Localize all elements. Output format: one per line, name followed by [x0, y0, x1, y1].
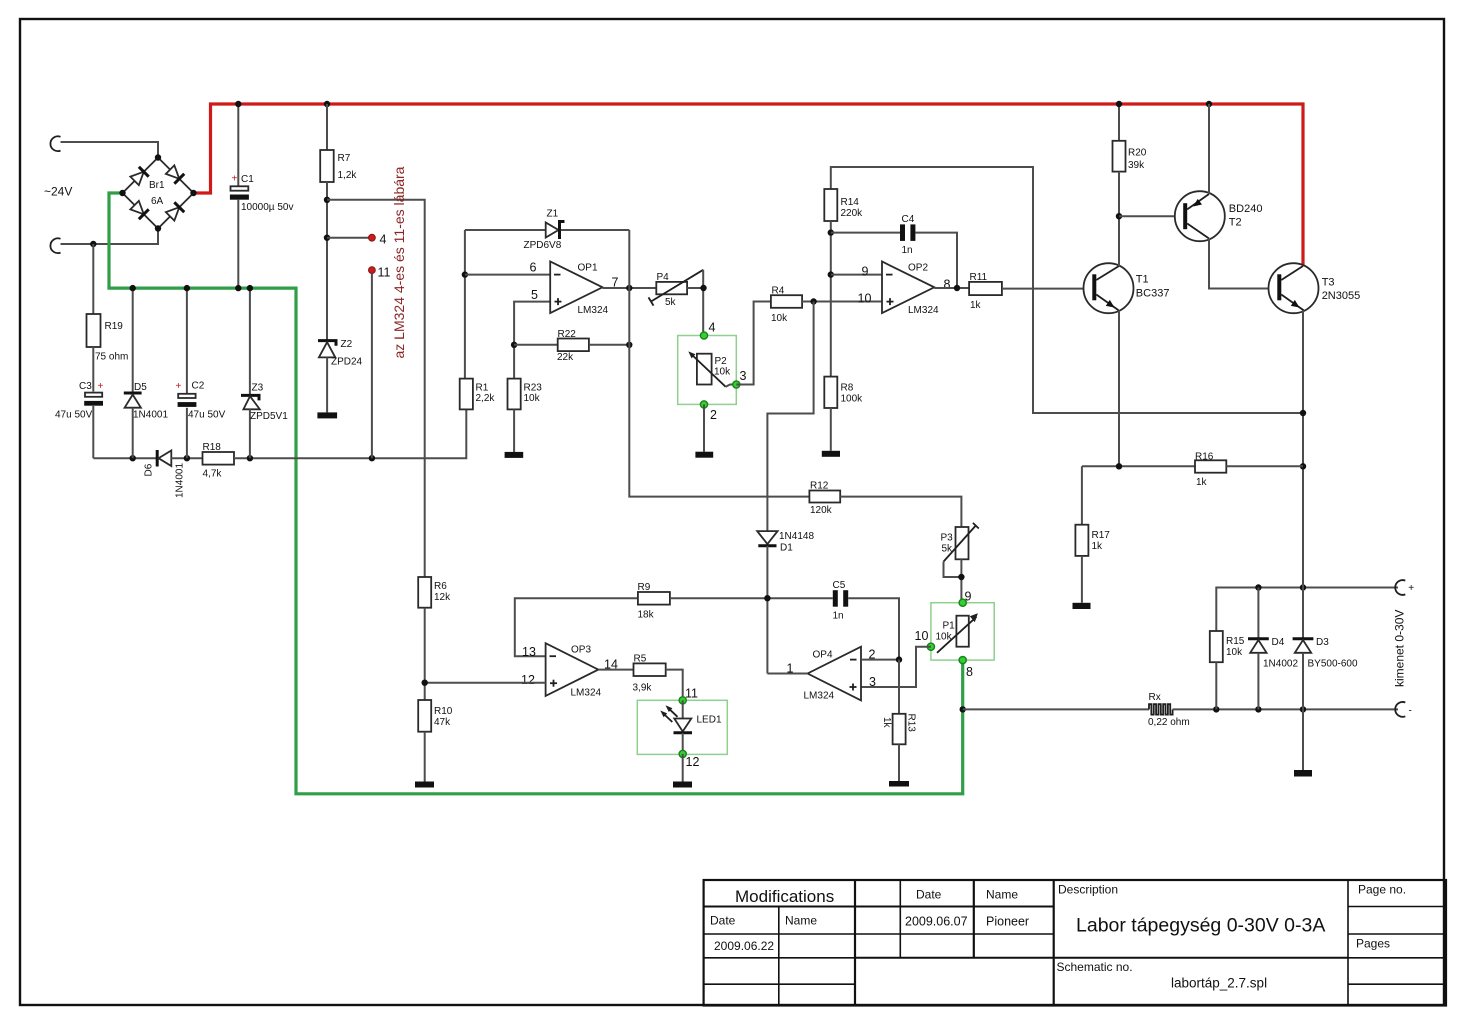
wire Z1 left vertical to R1 [464, 230, 466, 379]
svg-text:8: 8 [944, 278, 951, 292]
node C2 green [184, 285, 190, 291]
P2 pin 4 [700, 332, 707, 339]
node D3 minus [1300, 706, 1306, 712]
svg-text:+: + [1408, 583, 1414, 594]
svg-text:P3: P3 [941, 533, 954, 544]
svg-text:T3: T3 [1322, 277, 1335, 289]
resistor R13 [898, 660, 900, 714]
node C2 bus [184, 455, 190, 461]
svg-text:22k: 22k [557, 352, 574, 363]
resistor R4 [771, 295, 802, 308]
node D1 bottom R9 C5 [764, 595, 770, 601]
wire P2 pin3 to R4 [736, 302, 771, 385]
node R22 right [626, 342, 632, 348]
op-amp OP4 mirrored [808, 647, 861, 701]
resistor R7 [326, 104, 328, 150]
svg-text:D4: D4 [1272, 637, 1285, 648]
node pin2 C5 R13 [896, 656, 902, 662]
ground P2 [695, 452, 713, 458]
ground R10 [415, 782, 434, 788]
svg-text:Rx: Rx [1149, 692, 1161, 703]
svg-text:75 ohm: 75 ohm [95, 352, 128, 363]
LED1 emission arrows [668, 708, 678, 717]
svg-text:1k: 1k [881, 717, 892, 729]
node D4 plus [1255, 584, 1261, 590]
note az LM324 4-es es 11-es labara [391, 166, 407, 358]
svg-text:R12: R12 [810, 481, 829, 492]
title block horizontals [704, 906, 1054, 908]
resistor R6 [418, 577, 431, 608]
node P4 out [700, 285, 706, 291]
svg-text:1k: 1k [1196, 477, 1208, 488]
svg-text:3,9k: 3,9k [633, 683, 653, 694]
node 4 (red) [369, 234, 376, 241]
ground LED1 [673, 782, 692, 788]
ground R8 [822, 451, 840, 457]
svg-text:12k: 12k [434, 592, 451, 603]
svg-text:ZPD5V1: ZPD5V1 [250, 411, 288, 422]
pot P2 green frame [678, 336, 737, 405]
transistor T2 [1175, 191, 1225, 241]
capacitor C5 [833, 590, 838, 607]
wire R23 to ground [513, 409, 515, 452]
svg-text:2: 2 [710, 408, 717, 422]
P2 pin 3 [733, 381, 740, 388]
wire D6 to R18 [171, 457, 202, 459]
node T1 emitter R16 [1116, 463, 1122, 469]
svg-text:R14: R14 [841, 197, 860, 208]
svg-text:10k: 10k [714, 367, 731, 378]
node Z3 green [247, 285, 253, 291]
bridge diode bottom-right [165, 202, 184, 221]
svg-text:1,2k: 1,2k [338, 170, 358, 181]
potentiometer P4 [656, 282, 687, 294]
node P3 bottom [958, 574, 964, 580]
svg-text:R10: R10 [434, 706, 453, 717]
svg-text:11: 11 [378, 266, 391, 280]
svg-text:1N4148: 1N4148 [779, 531, 814, 542]
svg-text:10: 10 [915, 629, 929, 643]
svg-text:1N4002: 1N4002 [1263, 659, 1298, 670]
svg-text:10: 10 [858, 292, 872, 306]
diode D1 [757, 531, 777, 544]
node R7 bottom [324, 197, 330, 203]
svg-text:12: 12 [686, 755, 700, 769]
node bridge left [119, 190, 125, 196]
svg-text:R9: R9 [638, 582, 651, 593]
svg-text:labortáp_2.7.spl: labortáp_2.7.spl [1171, 976, 1267, 991]
svg-text:BD240: BD240 [1229, 203, 1263, 215]
svg-text:47u 50V: 47u 50V [188, 410, 226, 421]
svg-text:D6: D6 [144, 463, 155, 476]
svg-text:C1: C1 [241, 174, 254, 185]
AC input connector lower [50, 238, 60, 253]
svg-text:BC337: BC337 [1136, 288, 1170, 300]
bridge rectifier Br1 diamond [123, 158, 194, 229]
svg-text:P2: P2 [715, 356, 728, 367]
node D4 minus [1255, 706, 1261, 712]
node R7 red rail [324, 101, 330, 107]
resistor R19 [87, 314, 101, 347]
svg-text:+: + [176, 381, 182, 392]
svg-text:6A: 6A [151, 196, 164, 207]
P1 pin 10 dot [927, 643, 934, 650]
svg-text:10k: 10k [771, 313, 788, 324]
svg-text:ZPD6V8: ZPD6V8 [524, 240, 562, 251]
svg-text:4,7k: 4,7k [203, 469, 223, 480]
svg-text:az LM324 4-es és 11-es lábára: az LM324 4-es és 11-es lábára [391, 166, 407, 358]
svg-text:220k: 220k [841, 208, 864, 219]
svg-text:Date: Date [710, 914, 736, 928]
svg-text:5: 5 [531, 288, 538, 302]
node pin9 [828, 271, 834, 277]
zener Z1 [465, 229, 546, 231]
node bridge top [155, 154, 161, 160]
ground R13 [889, 781, 909, 787]
svg-text:Modifications: Modifications [735, 887, 834, 906]
svg-text:0,22 ohm: 0,22 ohm [1148, 717, 1190, 728]
svg-text:OP4: OP4 [813, 650, 833, 661]
svg-text:R15: R15 [1226, 636, 1245, 647]
svg-text:47k: 47k [434, 717, 451, 728]
wire LED to ground [682, 754, 684, 782]
wire R11 to T1 base [1002, 288, 1093, 290]
svg-text:Z1: Z1 [547, 209, 559, 220]
svg-text:1k: 1k [1092, 541, 1104, 552]
op-amp OP1 [550, 262, 602, 314]
svg-text:Z3: Z3 [252, 383, 264, 394]
wire P3 bottom [960, 559, 962, 602]
P1 pin 9 dot [959, 599, 966, 606]
node C1 green [235, 285, 241, 291]
plus output line [1216, 588, 1398, 632]
svg-text:Pioneer: Pioneer [986, 915, 1029, 929]
svg-text:1n: 1n [902, 245, 913, 256]
svg-text:3: 3 [740, 369, 747, 383]
red wire V+ rail [194, 104, 1304, 266]
wire pin9 [831, 274, 882, 276]
svg-text:R18: R18 [203, 442, 222, 453]
title block outer [704, 880, 1446, 1006]
svg-text:R11: R11 [970, 272, 988, 283]
wire pin10 to OP4 pin3 [861, 647, 931, 687]
svg-text:R6: R6 [434, 581, 447, 592]
svg-text:C3: C3 [79, 381, 92, 392]
wire C3 to bus [92, 406, 94, 458]
svg-text:8: 8 [966, 665, 973, 679]
svg-text:D3: D3 [1316, 637, 1329, 648]
capacitor C2 [186, 288, 188, 394]
wire pin5 [514, 302, 550, 379]
wire R19 to C3 [92, 347, 94, 392]
svg-text:C5: C5 [833, 580, 846, 591]
svg-text:5k: 5k [665, 297, 677, 308]
svg-text:R16: R16 [1195, 452, 1214, 463]
node R14 bottom C4 [828, 229, 834, 235]
wire OP4 pin1 [767, 673, 807, 675]
shunt Rx [1149, 704, 1173, 714]
output connector minus [1395, 702, 1405, 717]
node minus line on green [960, 706, 966, 712]
capacitor C3 [85, 393, 102, 397]
svg-text:Name: Name [785, 914, 817, 928]
node AC lower R19 tap [90, 241, 96, 247]
svg-text:OP1: OP1 [578, 263, 598, 274]
svg-text:13: 13 [522, 645, 536, 659]
svg-text:R5: R5 [634, 654, 647, 665]
title block verticals [854, 880, 856, 1006]
svg-text:10k: 10k [936, 632, 953, 643]
svg-text:10000µ 50v: 10000µ 50v [241, 202, 293, 213]
wire R19 upper [92, 244, 94, 314]
svg-text:2,2k: 2,2k [476, 393, 496, 404]
node T3 R16 [1300, 463, 1306, 469]
bridge diode top-right [165, 165, 184, 184]
svg-text:OP2: OP2 [908, 263, 928, 274]
svg-text:Pages: Pages [1356, 937, 1390, 951]
svg-text:10k: 10k [524, 393, 541, 404]
resistor R20 [1118, 104, 1120, 141]
svg-text:kimenet 0-30V: kimenet 0-30V [1393, 610, 1407, 687]
node D5 bus [130, 455, 136, 461]
resistor R5 [634, 663, 666, 676]
svg-text:R8: R8 [841, 383, 854, 394]
node 11 (red) [369, 267, 376, 274]
diode D3 [1302, 588, 1304, 639]
svg-text:Schematic no.: Schematic no. [1057, 960, 1133, 974]
node C1 red rail [235, 101, 241, 107]
node pin4 tap [324, 235, 330, 241]
svg-text:10k: 10k [1226, 647, 1243, 658]
ground R23 [505, 452, 524, 458]
node Z3 bus [247, 455, 253, 461]
node D5 green [130, 285, 136, 291]
LED1 pin 12 [679, 750, 686, 757]
svg-text:R22: R22 [558, 329, 577, 340]
ground R17 [1073, 603, 1091, 609]
svg-text:Page no.: Page no. [1358, 883, 1406, 897]
resistor R16 [1082, 465, 1195, 467]
svg-text:~24V: ~24V [44, 185, 72, 199]
svg-text:R13: R13 [906, 714, 917, 733]
svg-text:LM324: LM324 [908, 305, 939, 316]
transistor T3 [1269, 263, 1319, 313]
zener Z3 [249, 288, 251, 395]
LED1 green frame [637, 700, 727, 754]
resistor R10 [418, 700, 431, 732]
green wire negative rail [109, 193, 963, 794]
LED1 pin 11 [679, 697, 686, 704]
wire pin6 [465, 274, 550, 276]
node OP2 out C4 [954, 285, 960, 291]
svg-text:R23: R23 [524, 383, 543, 394]
svg-text:P4: P4 [657, 272, 670, 283]
svg-text:BY500-600: BY500-600 [1308, 659, 1358, 670]
resistor R17 [1081, 466, 1083, 524]
pot P2 [697, 354, 712, 385]
svg-text:T1: T1 [1136, 274, 1149, 286]
node pin6 R1 [462, 271, 468, 277]
svg-text:3: 3 [869, 675, 876, 689]
resistor R14 [831, 167, 1303, 413]
resistor R11 [969, 282, 1002, 295]
resistor R23 [508, 379, 521, 410]
svg-text:R17: R17 [1092, 530, 1111, 541]
pot P1 [956, 616, 968, 647]
node pin12 R6 R10 [422, 680, 428, 686]
svg-text:Br1: Br1 [149, 180, 165, 191]
label kimenet 0-30V [1393, 610, 1407, 687]
resistor R22 [514, 344, 558, 346]
wire 11 to bus [371, 274, 373, 459]
zener Z2 [318, 341, 336, 346]
svg-text:Date: Date [916, 888, 942, 902]
wire pin12 [425, 682, 546, 684]
svg-text:R1: R1 [476, 383, 489, 394]
svg-text:1N4001: 1N4001 [175, 463, 186, 498]
svg-text:+: + [232, 174, 238, 185]
svg-text:C2: C2 [192, 381, 205, 392]
svg-text:4: 4 [709, 321, 716, 335]
P2 pin 2 [700, 401, 707, 408]
transistor T1 [1084, 263, 1134, 313]
node T3 plus [1300, 584, 1306, 590]
node T2 red [1206, 101, 1212, 107]
svg-text:OP3: OP3 [571, 645, 591, 656]
svg-text:ZPD24: ZPD24 [331, 357, 363, 368]
wire OP1 output [603, 287, 657, 289]
resistor R15 [1210, 631, 1223, 662]
wire lower AC to bridge bottom [61, 229, 159, 245]
svg-text:120k: 120k [810, 505, 833, 516]
wire P4 right and wiper [687, 287, 704, 289]
wire to pin4 dot [327, 237, 369, 239]
node T3 sense [1300, 410, 1306, 416]
svg-text:4: 4 [380, 233, 387, 247]
pot P1 green frame [931, 603, 994, 660]
trimmer P3 [956, 527, 969, 559]
op-amp OP2 [882, 262, 934, 314]
op-amp OP3 [546, 643, 599, 696]
svg-text:18k: 18k [638, 610, 655, 621]
node pin10 [810, 298, 816, 304]
svg-text:1N4001: 1N4001 [133, 410, 168, 421]
svg-text:2N3055: 2N3055 [1322, 290, 1361, 302]
svg-text:C4: C4 [902, 214, 915, 225]
output connector plus [1395, 580, 1405, 595]
wire R8 to ground [830, 408, 832, 451]
svg-text:R4: R4 [772, 286, 785, 297]
P1 pin 8 dot [959, 657, 966, 664]
wire upper AC to bridge top [61, 142, 159, 158]
svg-text:Z2: Z2 [341, 339, 353, 350]
node 11-line bus [369, 455, 375, 461]
node R20 red [1116, 101, 1122, 107]
svg-text:LED1: LED1 [697, 715, 722, 726]
svg-text:39k: 39k [1128, 160, 1145, 171]
wire P3 wiper loop [944, 562, 962, 577]
svg-text:47u 50V: 47u 50V [55, 410, 93, 421]
svg-text:LM324: LM324 [578, 305, 609, 316]
node bridge right [190, 190, 196, 196]
svg-text:-: - [1409, 706, 1412, 717]
svg-text:5k: 5k [942, 544, 954, 555]
svg-text:R7: R7 [338, 153, 351, 164]
wire R7 junction to right vertical [327, 200, 425, 577]
wire OP3 out [598, 669, 633, 671]
svg-text:2009.06.22: 2009.06.22 [714, 939, 774, 953]
svg-text:Labor tápegység 0-30V 0-3A: Labor tápegység 0-30V 0-3A [1076, 915, 1325, 937]
node OP1 out [626, 285, 632, 291]
svg-text:LM324: LM324 [804, 691, 835, 702]
svg-text:9: 9 [862, 265, 869, 279]
wire R4 to OP2 [802, 301, 882, 303]
ground output [1294, 770, 1312, 777]
node R15 minus [1213, 706, 1219, 712]
wire OP2 output [934, 287, 969, 289]
diode D4 [1257, 588, 1259, 639]
svg-text:D1: D1 [780, 543, 793, 554]
resistor R1 [460, 379, 473, 410]
ground Z2 [317, 412, 337, 418]
svg-text:6: 6 [530, 261, 537, 275]
svg-text:P1: P1 [943, 621, 956, 632]
diode D5 [132, 288, 134, 393]
svg-text:R19: R19 [105, 321, 124, 332]
svg-text:Description: Description [1058, 883, 1118, 897]
minus output line [963, 708, 1149, 710]
wire bus right segment to R1 [234, 409, 466, 458]
wire bus left segment [93, 457, 157, 459]
svg-text:11: 11 [685, 687, 698, 701]
svg-text:T2: T2 [1229, 217, 1242, 229]
svg-text:2009.06.07: 2009.06.07 [905, 915, 968, 929]
node bridge bottom [155, 225, 161, 231]
svg-text:1n: 1n [833, 611, 844, 622]
svg-text:LM324: LM324 [571, 688, 602, 699]
bridge diode bottom-left [130, 200, 149, 219]
resistor R12 [809, 491, 840, 503]
svg-text:+: + [98, 381, 104, 392]
wire pin10 down-left to D1 [767, 302, 813, 532]
capacitor C4 [831, 232, 900, 234]
svg-text:Name: Name [986, 888, 1018, 902]
wire T2 base [1119, 215, 1184, 217]
svg-text:R20: R20 [1128, 148, 1147, 159]
resistor R18 [203, 452, 235, 465]
LED1 [682, 700, 684, 718]
svg-text:100k: 100k [841, 394, 864, 405]
resistor R9 [515, 598, 638, 656]
resistor R8 [824, 377, 837, 408]
svg-text:1k: 1k [970, 300, 982, 311]
svg-text:D5: D5 [134, 382, 147, 393]
wire OP1 out vertical to R12 [629, 230, 809, 497]
bridge diode top-left [130, 167, 149, 186]
diode D6 [156, 450, 159, 467]
wire OP4 pin2 [861, 659, 899, 661]
AC input connector upper [50, 136, 60, 151]
node T1 collector T2 base [1116, 213, 1122, 219]
wire P2 pin2 to ground [703, 404, 705, 451]
node R22 left [511, 342, 517, 348]
svg-text:12: 12 [521, 673, 535, 687]
capacitor C1 [237, 104, 239, 186]
minus line continues [1173, 708, 1398, 710]
